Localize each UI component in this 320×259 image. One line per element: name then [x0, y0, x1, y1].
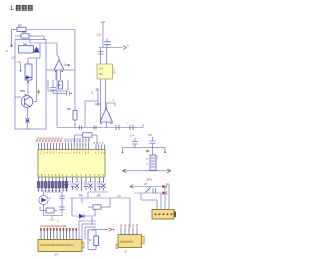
svg-text:1234567890123456789012: 1234567890123456789012 — [40, 243, 75, 247]
svg-text:+: + — [126, 121, 128, 125]
svg-text:OUT: OUT — [113, 68, 117, 74]
svg-text:R8: R8 — [22, 30, 26, 34]
svg-text:U2: U2 — [23, 42, 27, 46]
svg-text:R5: R5 — [97, 194, 101, 198]
svg-text:+: + — [112, 121, 114, 125]
svg-text:P8: P8 — [87, 138, 91, 142]
svg-text:C5: C5 — [148, 133, 152, 137]
svg-text:1.: 1. — [10, 6, 15, 12]
svg-text:C7: C7 — [144, 182, 148, 186]
svg-text:R9: R9 — [67, 107, 71, 111]
svg-text:p1p2p3p4p5p6p7p8: p1p2p3p4p5p6p7p8 — [41, 224, 67, 228]
svg-text:R7: R7 — [18, 24, 22, 28]
svg-text:1p2p3p4p5: 1p2p3p4p5 — [120, 239, 134, 243]
svg-text:C4: C4 — [130, 134, 134, 138]
svg-text:C9: C9 — [57, 83, 61, 87]
svg-text:C2: C2 — [97, 33, 101, 37]
svg-text:J2: J2 — [124, 250, 127, 254]
svg-text:2: 2 — [96, 88, 98, 92]
svg-text:D: D — [89, 238, 91, 242]
svg-text:R4: R4 — [79, 194, 83, 198]
svg-text:2a: 2a — [118, 194, 122, 198]
svg-text:C7: C7 — [12, 56, 16, 60]
svg-text:JP1: JP1 — [54, 253, 59, 257]
svg-text:U3: U3 — [99, 67, 103, 71]
svg-text:B2: B2 — [99, 72, 103, 76]
svg-text:JP3: JP3 — [146, 178, 152, 182]
svg-text:555: 555 — [20, 89, 25, 93]
